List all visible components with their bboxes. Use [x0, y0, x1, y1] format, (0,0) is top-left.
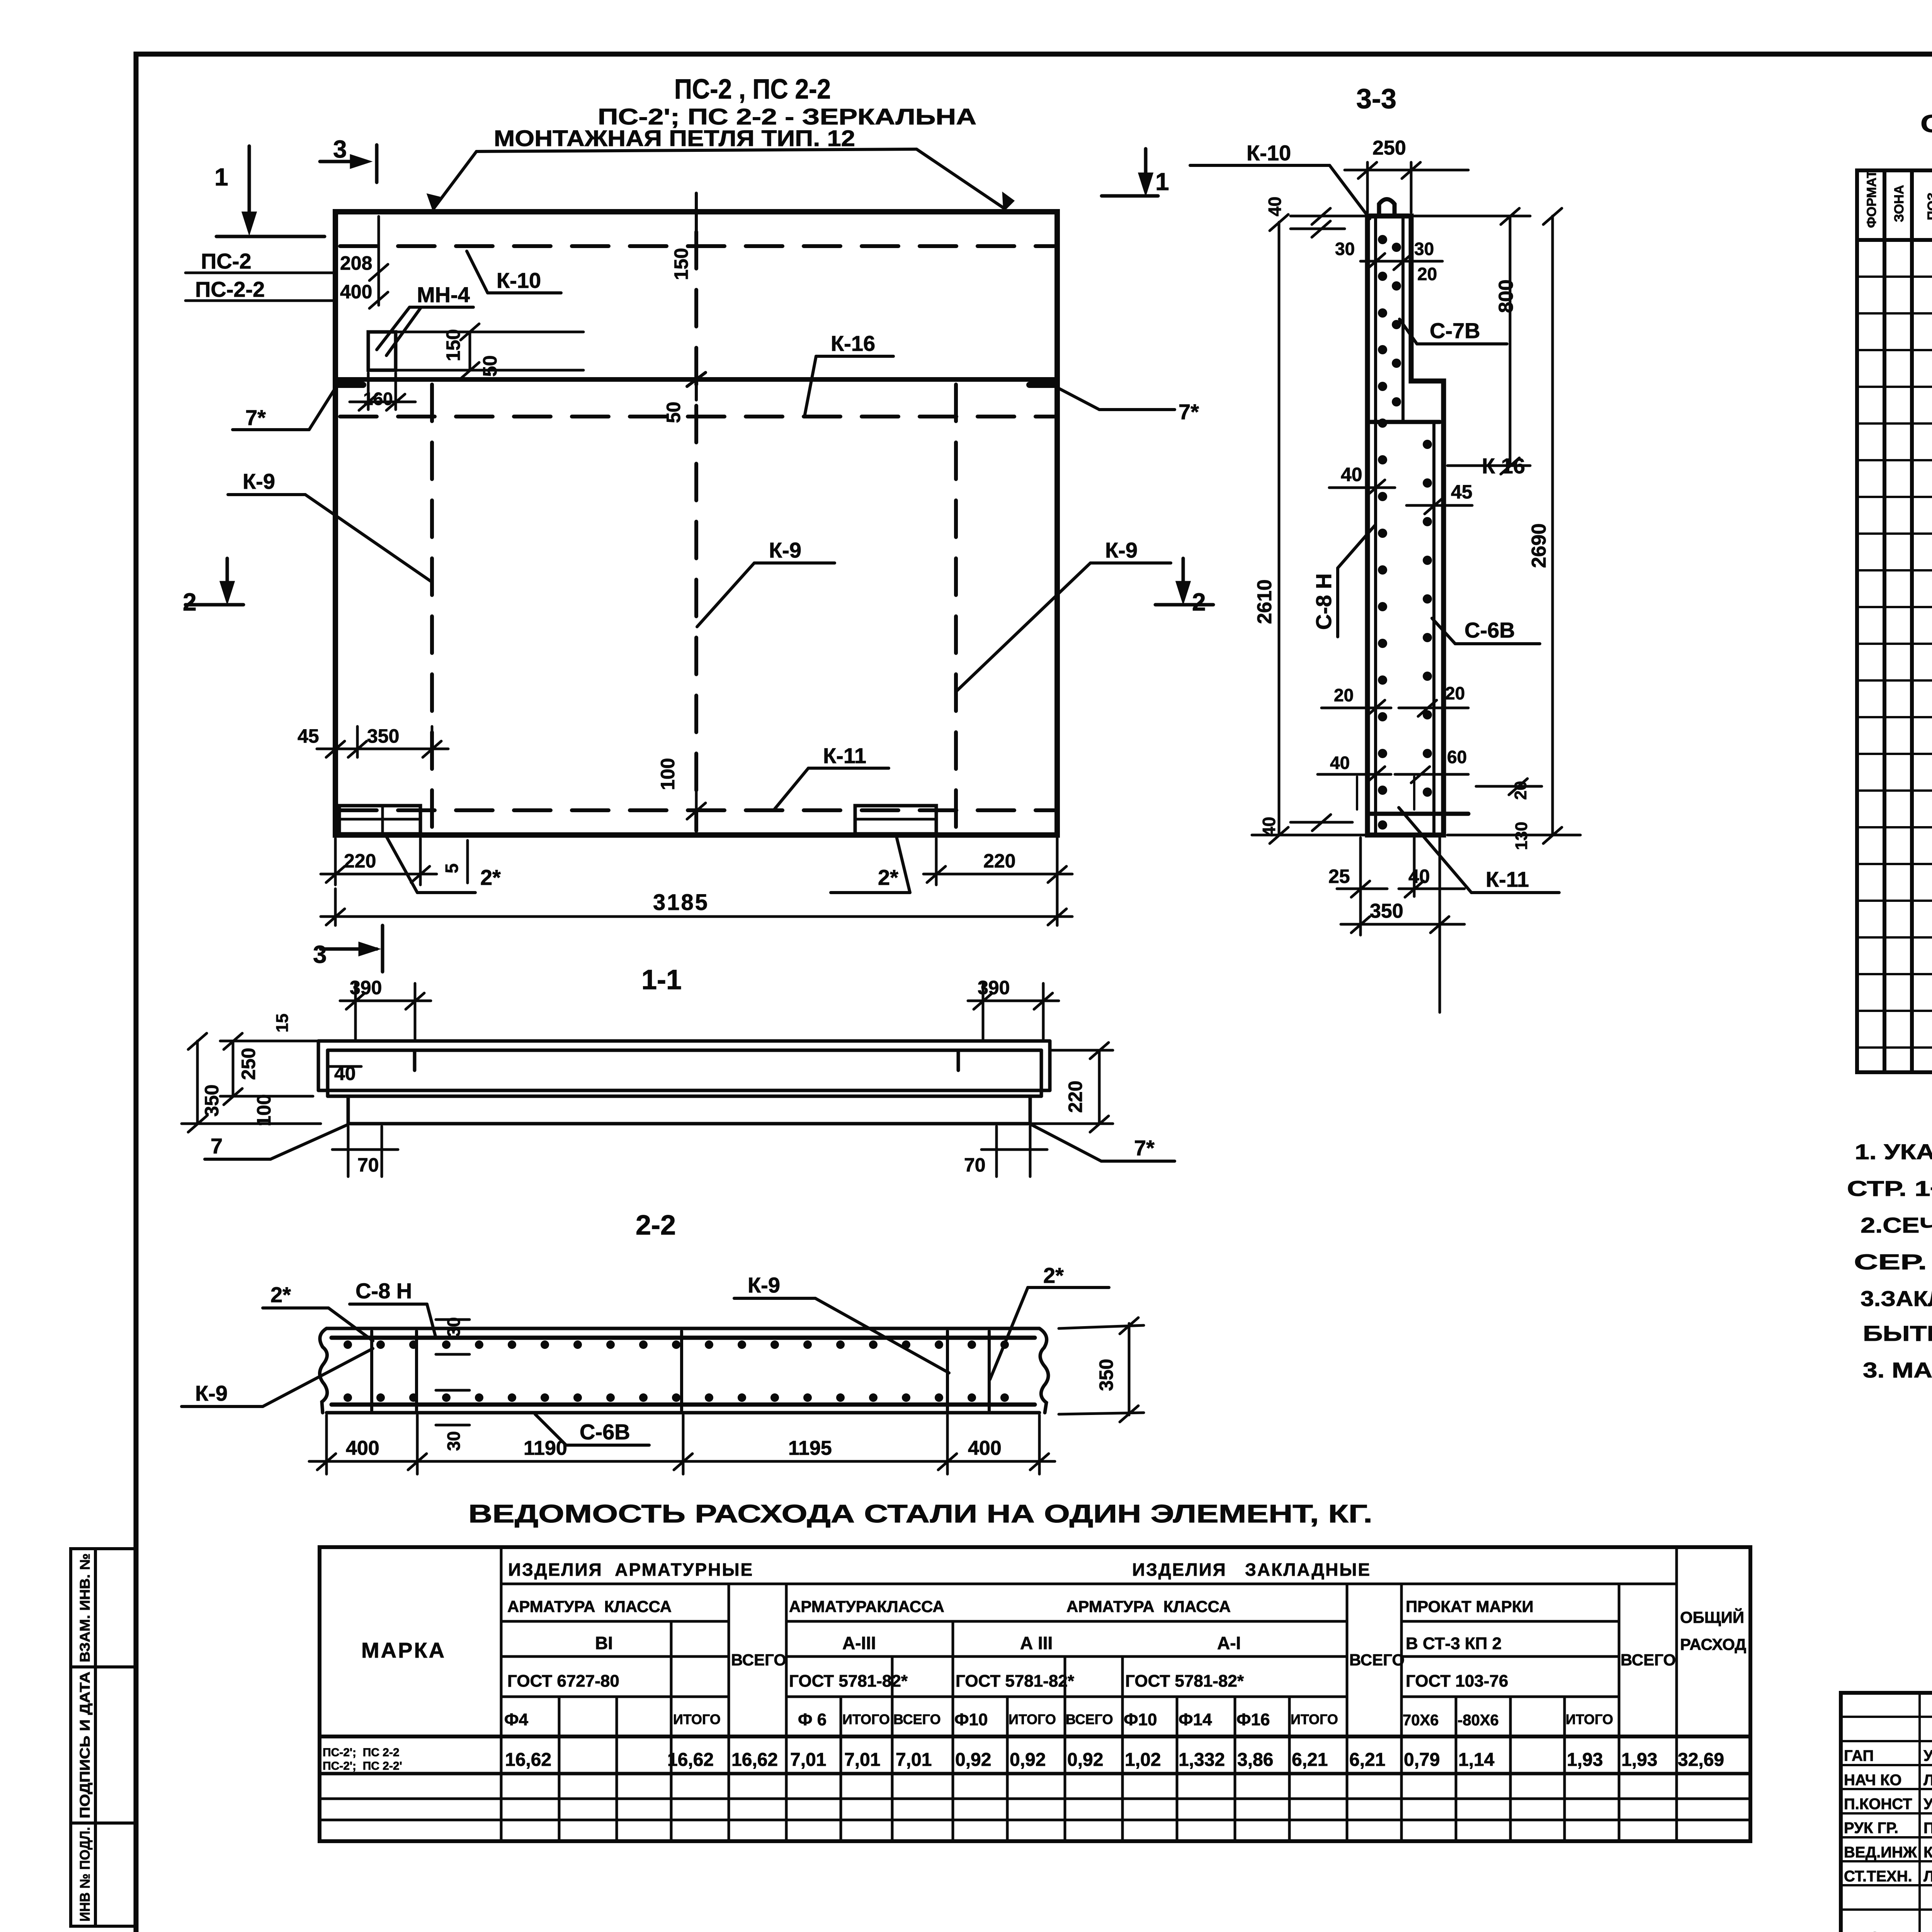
svg-text:ПС-2: ПС-2: [201, 249, 251, 273]
svg-text:ЛЕВИНА: ЛЕВИНА: [1923, 1772, 1932, 1789]
svg-text:БЫТЬ МЕТАЛЛИЗИРОВАНЫ.: БЫТЬ МЕТАЛЛИЗИРОВАНЫ.: [1863, 1321, 1932, 1345]
svg-text:3: 3: [333, 135, 347, 163]
svg-text:350: 350: [1095, 1359, 1117, 1391]
svg-text:6,21: 6,21: [1349, 1750, 1385, 1770]
svg-text:ВСЕГО: ВСЕГО: [731, 1651, 786, 1669]
svg-text:1195: 1195: [788, 1437, 832, 1459]
svg-text:208: 208: [340, 252, 372, 274]
dim 30 30 20 upper: [1361, 253, 1442, 270]
svg-text:40: 40: [1330, 753, 1350, 773]
svg-text:НАЧ КО: НАЧ КО: [1844, 1772, 1901, 1789]
section 2-2 bottom rebar dots: [344, 1393, 1009, 1402]
section 3-3 outer profile: [1367, 216, 1444, 835]
svg-text:70Х6: 70Х6: [1403, 1712, 1439, 1729]
dim 2610 left rotated: [1252, 214, 1365, 844]
svg-text:А-I: А-I: [1217, 1633, 1241, 1653]
steel table horizontals: [320, 1584, 1750, 1820]
section mark 1 right: [1102, 149, 1158, 196]
dim 3185: [321, 837, 1072, 925]
svg-text:7,01: 7,01: [896, 1750, 932, 1770]
svg-text:350: 350: [201, 1085, 223, 1117]
svg-text:40: 40: [1259, 817, 1279, 837]
svg-text:100: 100: [657, 758, 679, 790]
svg-text:2-2: 2-2: [636, 1210, 676, 1241]
svg-text:6,21: 6,21: [1292, 1750, 1328, 1770]
svg-text:3185: 3185: [653, 890, 709, 915]
section 1-1 left end: [317, 1041, 320, 1090]
svg-text:К-9: К-9: [769, 538, 801, 562]
svg-text:МАРКА: МАРКА: [361, 1638, 446, 1662]
svg-text:Ф4: Ф4: [504, 1710, 529, 1729]
svg-text:0,79: 0,79: [1404, 1750, 1440, 1770]
dim 2690 far right rotated: [1447, 208, 1580, 844]
dim 220 right: [923, 838, 1072, 885]
svg-text:С-6В: С-6В: [1464, 618, 1515, 642]
embed rect bottom right (2*): [855, 806, 936, 834]
svg-text:100: 100: [253, 1094, 275, 1126]
svg-text:350: 350: [1370, 900, 1403, 922]
svg-text:ЗОНА: ЗОНА: [1892, 185, 1906, 222]
svg-text:30: 30: [444, 1431, 464, 1451]
section 1-1 top slab double line: [318, 1039, 1050, 1043]
steel table verticals: [501, 1547, 1677, 1841]
svg-text:С-7В: С-7В: [1430, 318, 1480, 343]
dim 220 left: [321, 838, 437, 885]
svg-text:ПС-2 , ПС 2-2: ПС-2 , ПС 2-2: [674, 74, 831, 105]
svg-text:400: 400: [340, 281, 372, 303]
inner mesh line right lower (C-6в): [1432, 424, 1435, 833]
svg-text:ФОРМАТ: ФОРМАТ: [1864, 170, 1879, 228]
centerline tick at top: [695, 193, 698, 236]
svg-text:0,92: 0,92: [1010, 1750, 1046, 1770]
svg-text:Ф 6: Ф 6: [798, 1710, 827, 1729]
svg-text:30: 30: [1335, 239, 1355, 259]
section 2-2 stirrup verticals: [372, 1331, 989, 1410]
svg-text:А III: А III: [1020, 1633, 1053, 1653]
dashed rebar line mid (K-16): [340, 415, 1054, 418]
svg-text:ПС-2-2: ПС-2-2: [195, 277, 265, 301]
svg-text:60: 60: [1447, 747, 1467, 767]
svg-text:160: 160: [363, 389, 393, 409]
spec table row lines: [1857, 277, 1932, 1048]
section 2-2 top rebar dots: [344, 1340, 1009, 1349]
svg-text:ПОЛОСИНА: ПОЛОСИНА: [1923, 1820, 1932, 1837]
svg-text:К-10: К-10: [1247, 141, 1291, 165]
inner mesh line left (C-8н): [1374, 218, 1377, 833]
svg-text:2610: 2610: [1253, 579, 1276, 624]
center tick at band bottom: [695, 359, 698, 400]
svg-text:220: 220: [983, 850, 1015, 872]
svg-text:7*: 7*: [245, 405, 266, 430]
svg-text:7*: 7*: [1134, 1136, 1155, 1160]
svg-text:1,332: 1,332: [1179, 1750, 1225, 1770]
dim 150 for MH-4: [398, 324, 583, 379]
svg-text:350: 350: [367, 725, 399, 747]
left stamp strip column: [71, 1549, 135, 1926]
dashed rebar line bottom (K-11): [340, 808, 1054, 812]
svg-text:250: 250: [1372, 137, 1406, 159]
svg-text:2.СЕЧЕНИЯ И ПРИВЯЗКИ КАРКАС: 2.СЕЧЕНИЯ И ПРИВЯЗКИ КАРКАСОВ СМ. ЛИСТЫ …: [1861, 1213, 1932, 1237]
dim 70 right below: [981, 1126, 1047, 1177]
embed plate tick left (7*): [337, 382, 363, 388]
svg-text:К-11: К-11: [823, 743, 866, 768]
svg-text:РУК ГР.: РУК ГР.: [1844, 1820, 1898, 1837]
section 2-2 left jagged end: [320, 1328, 327, 1413]
svg-text:Ф16: Ф16: [1236, 1710, 1270, 1729]
svg-text:ИТОГО: ИТОГО: [842, 1711, 890, 1727]
svg-text:ГАП: ГАП: [1844, 1747, 1874, 1764]
svg-text:АРМАТУРАКЛАССА: АРМАТУРАКЛАССА: [789, 1597, 944, 1616]
section 2-2 right jagged end: [1039, 1328, 1048, 1413]
svg-text:К-10: К-10: [497, 268, 541, 293]
svg-text:ВСЕГО: ВСЕГО: [1349, 1651, 1405, 1669]
dim 70 left below: [332, 1126, 398, 1177]
steel table header texts: [323, 1560, 1746, 1772]
section 2-2 inner mesh lines: [332, 1336, 1035, 1340]
svg-text:70: 70: [964, 1154, 986, 1176]
svg-text:7: 7: [211, 1134, 223, 1158]
svg-text:ГОСТ 5781-82*: ГОСТ 5781-82*: [789, 1672, 908, 1690]
svg-text:150: 150: [670, 248, 692, 280]
svg-text:5: 5: [442, 863, 462, 873]
svg-text:40: 40: [1265, 197, 1285, 216]
svg-text:20: 20: [1334, 685, 1354, 705]
svg-text:7,01: 7,01: [790, 1750, 826, 1770]
svg-text:3. МАРКА КЕРАМЗИТОБЕТОНА ПО: 3. МАРКА КЕРАМЗИТОБЕТОНА ПО МОРОЗОСТОЙКО…: [1863, 1358, 1932, 1382]
svg-text:ИЗДЕЛИЯ АРМАТУРНЫЕ: ИЗДЕЛИЯ АРМАТУРНЫЕ: [508, 1560, 753, 1580]
svg-text:МН-4: МН-4: [417, 282, 470, 307]
bottom inner bar (K-11): [1370, 812, 1468, 816]
dashed cage line vertical right (K-9): [954, 384, 958, 831]
svg-text:7,01: 7,01: [844, 1750, 880, 1770]
svg-text:С-8 Н: С-8 Н: [1311, 573, 1336, 630]
svg-text:Ф10: Ф10: [954, 1710, 988, 1729]
svg-text:45: 45: [1451, 481, 1473, 503]
svg-text:400: 400: [346, 1437, 379, 1459]
svg-text:50: 50: [663, 401, 684, 423]
svg-text:П.КОНСТ: П.КОНСТ: [1844, 1796, 1912, 1813]
svg-text:3: 3: [313, 940, 327, 968]
section 2-2 outline top/bottom: [327, 1327, 1039, 1330]
steel table outer box: [320, 1547, 1750, 1841]
svg-text:А-III: А-III: [842, 1633, 876, 1653]
svg-text:Ф10: Ф10: [1124, 1710, 1157, 1729]
svg-text:АРМАТУРА КЛАССА: АРМАТУРА КЛАССА: [507, 1597, 672, 1616]
svg-text:800: 800: [1495, 279, 1517, 313]
svg-text:220: 220: [344, 850, 376, 872]
section mark 2 right: [1155, 558, 1213, 605]
svg-text:УЛИТИНА: УЛИТИНА: [1923, 1747, 1932, 1764]
svg-text:ГОСТ 5781-82*: ГОСТ 5781-82*: [956, 1672, 1075, 1690]
rebar dots right upper face: [1392, 243, 1401, 406]
svg-text:ГОСТ 5781-82*: ГОСТ 5781-82*: [1125, 1672, 1244, 1690]
svg-text:50: 50: [479, 355, 501, 377]
svg-text:ВI: ВI: [595, 1633, 613, 1653]
embed box MH-4: [368, 332, 396, 370]
svg-text:ПС-2'; ПС 2-2: ПС-2'; ПС 2-2: [323, 1746, 400, 1759]
svg-text:1. УКАЗАНИЯ ПО ИЗГОТОВЛЕНИЮ: 1. УКАЗАНИЯ ПО ИЗГОТОВЛЕНИЮ СТЕНОВЫХ ПАН…: [1855, 1139, 1932, 1164]
svg-text:16,62: 16,62: [505, 1750, 551, 1770]
svg-text:КИРЕЕВА: КИРЕЕВА: [1923, 1844, 1932, 1861]
svg-text:1: 1: [1155, 168, 1169, 196]
svg-text:400: 400: [968, 1437, 1002, 1459]
dim 800 right rotated: [1414, 208, 1530, 474]
horizontal bar at step (K-16): [1368, 420, 1440, 424]
panel top band bottom line: [335, 377, 1057, 382]
svg-text:0,92: 0,92: [955, 1750, 991, 1770]
svg-text:РАСХОД: РАСХОД: [1680, 1635, 1746, 1653]
dashed cage line vertical left (K-9): [430, 384, 434, 831]
svg-text:1,93: 1,93: [1567, 1750, 1603, 1770]
svg-text:16,62: 16,62: [731, 1750, 778, 1770]
svg-text:ПС-2'; ПС 2-2': ПС-2'; ПС 2-2': [323, 1760, 402, 1772]
svg-text:УЛИТИНА: УЛИТИНА: [1923, 1929, 1932, 1932]
svg-text:40: 40: [1341, 464, 1362, 485]
svg-text:3.ЗАКЛАДНЫЕ ИЗДЕЛИЯ ОБОЗНАЧ: 3.ЗАКЛАДНЫЕ ИЗДЕЛИЯ ОБОЗНАЧЕННЫЕ ЗВЕЗДОЧ…: [1861, 1286, 1932, 1311]
svg-text:-80Х6: -80Х6: [1458, 1712, 1499, 1729]
svg-text:16,62: 16,62: [667, 1750, 714, 1770]
svg-text:С-6В: С-6В: [580, 1420, 630, 1444]
svg-text:УЛИТИНА: УЛИТИНА: [1923, 1796, 1932, 1813]
dim 390 right of 1-1: [968, 983, 1059, 1039]
dim 390 left of 1-1: [340, 983, 431, 1039]
dim 160 under MH-4: [350, 373, 415, 410]
svg-text:220: 220: [1065, 1081, 1086, 1113]
bottom dims of 2-2: 400 1190 1195 400: [309, 1415, 1055, 1474]
svg-text:7*: 7*: [1179, 400, 1199, 424]
svg-text:3-3: 3-3: [1356, 83, 1396, 114]
svg-text:ПОЗ: ПОЗ: [1925, 192, 1932, 220]
svg-text:30: 30: [1414, 239, 1434, 259]
svg-text:ПОДПИСЬ И ДАТА: ПОДПИСЬ И ДАТА: [77, 1672, 93, 1818]
svg-text:ВСЕГО: ВСЕГО: [1621, 1651, 1676, 1669]
lifting loop on top: [1379, 199, 1395, 216]
svg-text:250: 250: [238, 1048, 259, 1080]
dim 250 rotated with line: [220, 1033, 321, 1105]
svg-text:45: 45: [298, 725, 319, 747]
svg-text:ЛУНЕНКОВ: ЛУНЕНКОВ: [1923, 1868, 1932, 1885]
svg-text:К-9: К-9: [748, 1273, 780, 1297]
svg-text:ВЕД.ИНЖ: ВЕД.ИНЖ: [1844, 1844, 1917, 1861]
dim 220 rotated right: [1032, 1043, 1113, 1132]
svg-text:ВСЕГО: ВСЕГО: [1066, 1711, 1113, 1727]
svg-text:ИТОГО: ИТОГО: [673, 1711, 721, 1727]
svg-text:15: 15: [273, 1014, 292, 1032]
section 1-1 mid double line: [318, 1089, 1050, 1092]
title block left grid: [1841, 1693, 1932, 1932]
section mark 3 bottom: [321, 925, 383, 972]
svg-text:ИТОГО: ИТОГО: [1009, 1711, 1056, 1727]
rebar dots right lower face: [1423, 440, 1432, 797]
staff rows: [1844, 1747, 1932, 1932]
svg-text:25: 25: [1328, 866, 1350, 887]
svg-text:К-9: К-9: [243, 469, 275, 493]
svg-text:ОБЩИЙ: ОБЩИЙ: [1680, 1608, 1744, 1626]
svg-text:ВСЕГО: ВСЕГО: [893, 1711, 941, 1727]
svg-text:К-16: К-16: [831, 331, 875, 355]
vertical dim line for 208/400: [369, 216, 388, 308]
svg-text:0,92: 0,92: [1067, 1750, 1103, 1770]
svg-text:150: 150: [442, 329, 464, 361]
svg-text:К-9: К-9: [195, 1381, 228, 1405]
svg-text:К-11: К-11: [1486, 867, 1529, 891]
svg-text:2*: 2*: [270, 1282, 291, 1307]
svg-text:СЕР. 1-335АТ.: СЕР. 1-335АТ.: [1854, 1250, 1932, 1274]
svg-text:К-9: К-9: [1105, 538, 1138, 562]
embed plate tick right (7*): [1029, 382, 1056, 388]
svg-text:390: 390: [978, 977, 1010, 998]
spec table grid: [1857, 170, 1932, 1072]
svg-text:ИНВ № ПОДЛ.: ИНВ № ПОДЛ.: [77, 1827, 93, 1922]
svg-text:СТР. 1÷3 АЛ. III СЕР. 1-335АТ.: СТР. 1÷3 АЛ. III СЕР. 1-335АТ.: [1847, 1176, 1932, 1201]
svg-text:ИТОГО: ИТОГО: [1566, 1711, 1613, 1727]
svg-text:С-8 Н: С-8 Н: [355, 1279, 412, 1303]
dim 45 350 bottom left: [317, 726, 448, 757]
svg-text:ГОСТ 6727-80: ГОСТ 6727-80: [507, 1672, 619, 1690]
svg-text:20: 20: [1445, 683, 1465, 703]
svg-text:СТ.ТЕХН.: СТ.ТЕХН.: [1844, 1868, 1912, 1885]
svg-text:1: 1: [214, 163, 228, 191]
svg-text:ИТОГО: ИТОГО: [1291, 1711, 1338, 1727]
svg-text:20: 20: [1417, 264, 1437, 284]
svg-text:МОНТАЖНАЯ ПЕТЛЯ ТИП. 12: МОНТАЖНАЯ ПЕТЛЯ ТИП. 12: [494, 126, 855, 151]
leader trapezoid for Монтажная петля: [429, 149, 1012, 209]
dim 350 rotated right of 2-2: [1059, 1318, 1144, 1422]
svg-text:1-1: 1-1: [641, 964, 682, 995]
svg-text:1,14: 1,14: [1458, 1750, 1495, 1770]
svg-text:Ф14: Ф14: [1179, 1710, 1212, 1729]
svg-text:1,02: 1,02: [1125, 1750, 1161, 1770]
svg-text:1190: 1190: [524, 1437, 567, 1459]
svg-text:2*: 2*: [480, 865, 501, 889]
dashed rebar line top (K-10): [340, 244, 1054, 248]
svg-text:2*: 2*: [878, 865, 898, 889]
dashed cage line vertical center (K-9): [694, 232, 698, 831]
svg-text:390: 390: [350, 977, 382, 998]
section 1-1 right end: [1048, 1041, 1052, 1090]
svg-text:2690: 2690: [1528, 523, 1550, 568]
svg-text:СБОРОЧНЫЕ ЕДИНИЦЫ НА ОДИН: СБОРОЧНЫЕ ЕДИНИЦЫ НА ОДИН ЭЛЕМЕНТ: [1920, 110, 1932, 138]
svg-text:130: 130: [1512, 822, 1531, 850]
svg-text:70: 70: [357, 1154, 379, 1176]
embed rect bottom left (2*): [339, 806, 420, 834]
svg-text:1,93: 1,93: [1621, 1750, 1657, 1770]
dim 250 top: [1345, 162, 1468, 213]
svg-text:ИЗДЕЛИЯ ЗАКЛАДНЫЕ: ИЗДЕЛИЯ ЗАКЛАДНЫЕ: [1132, 1560, 1371, 1580]
section mark 2 left: [185, 558, 243, 605]
svg-text:2: 2: [183, 588, 197, 616]
svg-text:ПРОКАТ МАРКИ: ПРОКАТ МАРКИ: [1406, 1597, 1534, 1616]
svg-text:2: 2: [1192, 588, 1206, 616]
svg-text:К 16: К 16: [1482, 454, 1525, 478]
svg-text:3,86: 3,86: [1237, 1750, 1273, 1770]
rebar dots left face: [1378, 235, 1387, 830]
panel outline: [335, 212, 1057, 835]
svg-text:ВЕДОМОСТЬ РАСХОДА СТАЛИ: ВЕДОМОСТЬ РАСХОДА СТАЛИ НА ОДИН ЭЛЕМЕНТ,…: [468, 1499, 1372, 1528]
svg-text:ГОСТ 103-76: ГОСТ 103-76: [1406, 1672, 1508, 1690]
section 1-1 bottom line: [348, 1122, 1030, 1126]
section mark 3 top: [320, 145, 377, 182]
section mark 1 left: [216, 146, 325, 236]
svg-text:2*: 2*: [1043, 1263, 1064, 1287]
svg-text:32,69: 32,69: [1678, 1750, 1724, 1770]
inner mesh line right upper (C-7в): [1401, 218, 1405, 422]
svg-text:АРМАТУРА КЛАССА: АРМАТУРА КЛАССА: [1066, 1597, 1231, 1616]
svg-text:ВЗАМ. ИНВ. №: ВЗАМ. ИНВ. №: [77, 1553, 93, 1662]
section 1-1 stirrup ticks: [413, 1050, 417, 1070]
dim 350 rotated with line: [182, 1033, 321, 1132]
svg-text:Н.КОНТР: Н.КОНТР: [1844, 1929, 1912, 1932]
svg-text:В СТ-3 КП 2: В СТ-3 КП 2: [1406, 1634, 1502, 1653]
